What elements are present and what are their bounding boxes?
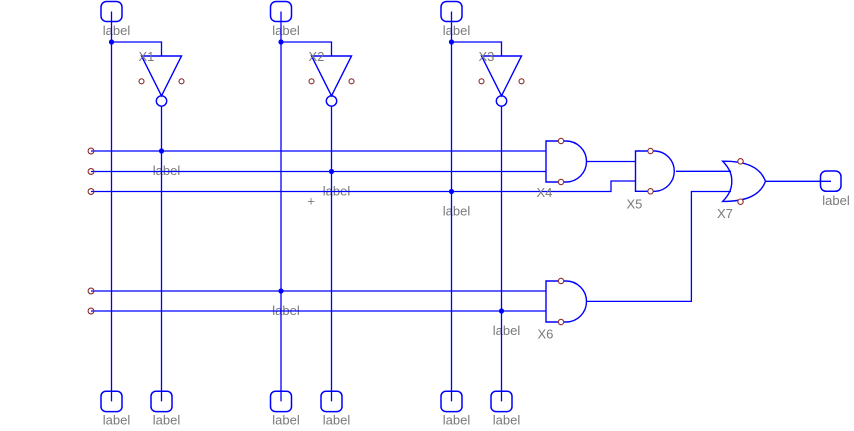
svg-text:label: label — [443, 204, 471, 219]
not gate X2 — [309, 56, 354, 106]
open end marker row 1 — [88, 148, 94, 154]
wire branch to X3 input — [452, 42, 502, 56]
svg-text:label: label — [103, 413, 131, 428]
open end marker row 2 — [88, 169, 94, 175]
junction pin P3 line to row 3 — [449, 189, 454, 194]
svg-text:X6: X6 — [538, 327, 554, 342]
bottom pin B5 — [441, 391, 462, 411]
open end marker row 5 — [88, 308, 94, 314]
junction at pin P1 branch — [109, 39, 114, 44]
junction pin P2 line to row 4 — [278, 288, 283, 293]
svg-text:label: label — [822, 193, 850, 208]
junction X1 output to row 1 — [159, 148, 164, 153]
and gate X4 — [546, 138, 586, 184]
bottom pin B4 — [321, 391, 342, 411]
wire row 1 to X4 input — [91, 150, 546, 152]
wire pin P3 vertical bus — [451, 12, 453, 402]
output pin Q — [821, 171, 842, 191]
svg-text:label: label — [443, 413, 471, 428]
not gate X3 — [479, 56, 524, 106]
svg-text:label: label — [323, 413, 351, 428]
wire X1 output vertical bus — [161, 106, 163, 401]
wire row 3 to X5 lower input — [91, 181, 636, 192]
svg-text:X2: X2 — [309, 49, 325, 64]
wire pin P2 vertical bus — [280, 12, 282, 402]
wire row 5 to X6 input — [91, 310, 546, 312]
junction at pin P2 branch — [278, 39, 283, 44]
open end marker row 4 — [88, 288, 94, 294]
wire X3 output vertical bus — [501, 106, 503, 401]
wire X5 output to X7 input — [676, 170, 731, 172]
wire X6 output up to X7 lower input — [587, 192, 732, 302]
junction X2 output to row 2 — [329, 169, 334, 174]
or gate X7 — [723, 159, 766, 205]
svg-text:label: label — [443, 23, 471, 38]
not gate X1 — [139, 56, 184, 106]
wire branch to X1 input — [112, 42, 162, 56]
wire X7 output to output pin — [766, 180, 832, 182]
svg-text:X3: X3 — [479, 49, 495, 64]
svg-text:label: label — [493, 413, 521, 428]
wire X4 output to X5 input — [587, 161, 636, 163]
svg-text:label: label — [272, 413, 300, 428]
svg-text:label: label — [272, 23, 300, 38]
bottom pin B2 — [151, 391, 172, 411]
wire pin P1 vertical bus — [111, 12, 113, 402]
input pin P3 — [441, 2, 462, 22]
open end marker row 3 — [88, 189, 94, 195]
and gate X5 — [636, 148, 675, 194]
svg-text:X1: X1 — [139, 49, 155, 64]
input pin P1 — [101, 2, 122, 22]
bottom pin B3 — [271, 391, 292, 411]
svg-text:X4: X4 — [537, 185, 553, 200]
and gate X6 — [546, 278, 586, 324]
bottom pin B6 — [491, 391, 512, 411]
svg-text:label: label — [103, 23, 131, 38]
svg-text:+: + — [307, 194, 315, 209]
bottom pin B1 — [101, 391, 122, 411]
svg-text:label: label — [493, 323, 521, 338]
svg-text:label: label — [153, 413, 181, 428]
junction at pin P3 branch — [449, 39, 454, 44]
wire X2 output vertical bus — [331, 106, 333, 401]
wire row 2 to X4 input — [91, 171, 546, 173]
wire row 4 to X6 input — [91, 290, 546, 292]
junction X3 output to row 5 — [499, 308, 504, 313]
input pin P2 — [271, 2, 292, 22]
wire branch to X2 input — [281, 42, 332, 56]
svg-text:X5: X5 — [627, 196, 643, 211]
svg-text:label: label — [153, 163, 181, 178]
svg-text:X7: X7 — [717, 206, 733, 221]
